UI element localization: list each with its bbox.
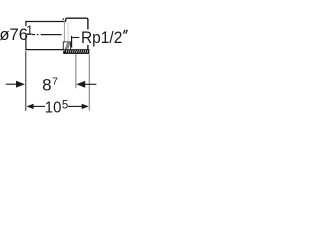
svg-text:10: 10 — [45, 100, 62, 117]
centerline long dash — [41, 34, 62, 35]
socket thread line faint — [67, 22, 69, 41]
svg-text:5: 5 — [62, 100, 68, 112]
socket outline top — [66, 18, 88, 21]
extension line right (10.5 right) — [88, 54, 90, 110]
extension line middle (8.7 right) — [75, 54, 77, 88]
wall section box left edge — [62, 42, 64, 50]
knurled band hatch — [66, 50, 88, 52]
knurled band body — [63, 51, 65, 54]
svg-text:ø76: ø76 — [0, 25, 28, 44]
wall section box top edge — [63, 41, 71, 43]
pipe left edge lower part — [25, 36, 27, 51]
svg-text:1: 1 — [26, 24, 33, 38]
pipe bottom edge — [25, 49, 64, 51]
svg-text:7: 7 — [52, 75, 58, 87]
socket right edge upper — [87, 19, 89, 29]
dim 10.5 left arrowhead — [27, 104, 34, 109]
dim 10.5 right arrowhead — [82, 104, 89, 109]
wall section hatch — [65, 43, 70, 50]
socket right edge lower — [87, 45, 89, 50]
svg-text:8: 8 — [42, 76, 51, 95]
dim 10.5 line right segment — [68, 105, 82, 107]
dim 8.7 left tail — [6, 83, 16, 85]
leader dash to label — [72, 37, 79, 39]
socket bore line grey — [63, 20, 65, 42]
dim 8.7 right arrowhead — [76, 81, 85, 88]
centerline dot — [37, 34, 39, 35]
knurled band main body — [65, 49, 89, 54]
centerline short dash — [32, 34, 35, 35]
label inch tick 1 — [123, 30, 125, 34]
background — [0, 0, 130, 130]
superscript 1 foot serif — [27, 34, 31, 35]
pipe top edge — [25, 21, 65, 23]
label inch tick 2 — [126, 30, 128, 34]
dim 8.7 right tail — [85, 83, 97, 85]
extension line left — [25, 51, 27, 111]
socket left tick — [62, 18, 64, 20]
pipe left edge — [25, 21, 27, 26]
wall section box right edge — [70, 42, 72, 50]
svg-text:Rp1/2: Rp1/2 — [81, 29, 122, 47]
leader vertical to thread — [71, 36, 73, 48]
dim 10.5 line left segment — [33, 105, 45, 107]
dim 8.7 left arrowhead — [16, 81, 25, 88]
